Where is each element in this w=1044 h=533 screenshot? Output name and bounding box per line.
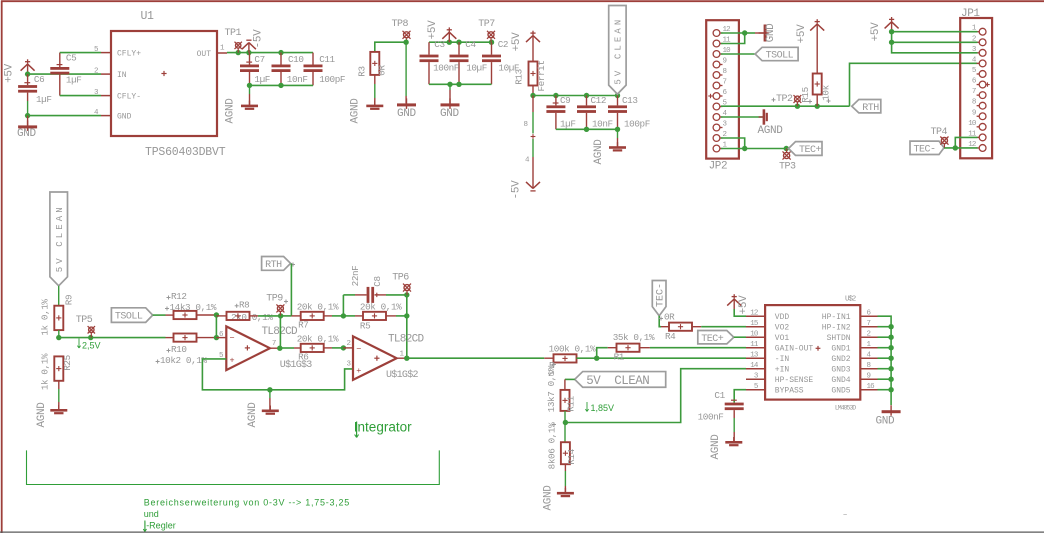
svg-text:CFLY+: CFLY+ — [117, 50, 141, 59]
svg-text:8k06 0,1%: 8k06 0,1% — [546, 422, 557, 469]
svg-text:5V CLEAN: 5V CLEAN — [55, 204, 65, 272]
svg-text:GND: GND — [765, 23, 777, 43]
svg-text:12: 12 — [750, 310, 758, 318]
svg-text:I-Regler: I-Regler — [144, 521, 176, 531]
svg-text:+5V: +5V — [870, 22, 882, 42]
svg-text:GND4: GND4 — [831, 376, 850, 385]
svg-text:R8: R8 — [239, 300, 249, 311]
svg-text:13k7 0,1%: 13k7 0,1% — [546, 365, 557, 412]
svg-text:GND3: GND3 — [831, 366, 850, 375]
svg-text:TP6: TP6 — [392, 273, 409, 284]
svg-text:AGND: AGND — [758, 125, 784, 137]
svg-text:HP-SENSE: HP-SENSE — [775, 376, 814, 385]
svg-text:TP2: TP2 — [776, 94, 793, 105]
svg-text:TP7: TP7 — [478, 19, 495, 30]
svg-text:R1: R1 — [614, 351, 625, 362]
svg-text:C7: C7 — [254, 54, 264, 65]
svg-text:1µF: 1µF — [254, 74, 270, 85]
svg-text:GND2: GND2 — [831, 355, 850, 364]
svg-text:7: 7 — [972, 88, 976, 96]
svg-text:AGND: AGND — [593, 139, 605, 165]
svg-text:HP-IN1: HP-IN1 — [822, 313, 851, 322]
svg-text:BYPASS: BYPASS — [775, 387, 804, 396]
svg-text:1µF: 1µF — [66, 75, 82, 86]
svg-text:TEC+: TEC+ — [799, 145, 822, 156]
svg-text:HP-IN2: HP-IN2 — [822, 324, 851, 333]
svg-text:C5: C5 — [66, 53, 76, 64]
svg-text:7: 7 — [272, 340, 277, 348]
svg-text:1k 0,1%: 1k 0,1% — [40, 353, 51, 390]
svg-text:1µF: 1µF — [36, 94, 52, 105]
svg-text:TSOLL: TSOLL — [766, 51, 794, 62]
svg-text:4: 4 — [525, 157, 530, 165]
svg-text:TP4: TP4 — [931, 127, 948, 138]
svg-text:R3: R3 — [357, 66, 368, 76]
svg-text:−: − — [356, 345, 361, 355]
svg-text:100nF: 100nF — [433, 62, 459, 73]
svg-text:7: 7 — [867, 320, 871, 328]
svg-text:~: ~ — [843, 512, 847, 520]
svg-text:R25: R25 — [62, 355, 73, 371]
svg-text:U$2: U$2 — [845, 296, 856, 304]
svg-text:R9: R9 — [63, 295, 74, 305]
svg-text:14k3 0,1%: 14k3 0,1% — [170, 302, 217, 313]
svg-text:R5: R5 — [360, 321, 370, 332]
svg-text:TP5: TP5 — [76, 315, 93, 326]
svg-text:VDD: VDD — [775, 313, 790, 322]
svg-text:-5V: -5V — [253, 29, 265, 49]
svg-text:GND: GND — [397, 108, 417, 120]
svg-text:100nF: 100nF — [698, 412, 724, 423]
svg-text:+: + — [230, 355, 235, 365]
svg-text:2,5V: 2,5V — [82, 341, 101, 351]
svg-text:100pF: 100pF — [624, 119, 650, 130]
svg-text:RTH: RTH — [265, 260, 282, 271]
svg-text:C3: C3 — [434, 39, 444, 50]
svg-text:10nF: 10nF — [592, 119, 613, 130]
svg-text:VO2: VO2 — [775, 324, 790, 333]
svg-text:R14: R14 — [566, 448, 577, 464]
svg-text:JP1: JP1 — [961, 8, 980, 20]
svg-text:1µF: 1µF — [560, 119, 576, 130]
svg-text:1: 1 — [220, 45, 225, 53]
svg-text:+5V: +5V — [427, 20, 439, 40]
svg-text:20k 0,1%: 20k 0,1% — [360, 301, 402, 312]
svg-text:GND: GND — [876, 416, 896, 428]
svg-text:-5V: -5V — [511, 180, 523, 200]
svg-text:8: 8 — [723, 68, 727, 76]
svg-text:AGND: AGND — [350, 98, 362, 124]
svg-text:C11: C11 — [319, 54, 335, 65]
svg-text:VO1: VO1 — [775, 334, 790, 343]
svg-text:C12: C12 — [591, 95, 607, 106]
svg-text:3: 3 — [347, 361, 352, 369]
svg-text:OUT: OUT — [197, 50, 212, 59]
svg-text:0R: 0R — [664, 312, 675, 323]
svg-text:100pF: 100pF — [319, 74, 345, 85]
svg-text:TEC-: TEC- — [914, 144, 936, 155]
svg-text:+5V: +5V — [511, 32, 523, 52]
svg-text:C8: C8 — [372, 276, 383, 286]
svg-text:TP8: TP8 — [392, 19, 409, 30]
svg-text:U$1G$2: U$1G$2 — [386, 369, 419, 381]
svg-text:10nF: 10nF — [287, 74, 308, 85]
svg-text:7: 7 — [723, 79, 727, 87]
svg-text:1: 1 — [400, 351, 405, 359]
svg-text:−: − — [230, 334, 235, 344]
svg-text:C4: C4 — [465, 39, 476, 50]
svg-text:TP1: TP1 — [225, 28, 242, 39]
svg-text:TP9: TP9 — [266, 294, 283, 305]
svg-text:10k: 10k — [821, 84, 832, 100]
svg-text:TPS60403DBVT: TPS60403DBVT — [145, 146, 226, 159]
svg-text:GND1: GND1 — [831, 345, 850, 354]
svg-text:GND5: GND5 — [831, 387, 850, 396]
svg-text:5V CLEAN: 5V CLEAN — [586, 374, 649, 388]
svg-text:+5V: +5V — [738, 295, 750, 315]
svg-text:RTH: RTH — [862, 103, 879, 114]
svg-text:8: 8 — [972, 99, 976, 107]
svg-text:2k0 0,1%: 2k0 0,1% — [231, 312, 273, 323]
svg-text:AGND: AGND — [247, 402, 259, 428]
svg-text:GND: GND — [440, 108, 460, 120]
svg-text:R10: R10 — [171, 344, 187, 355]
svg-text:R15: R15 — [800, 87, 811, 103]
svg-text:+IN: +IN — [775, 366, 790, 375]
svg-text:9: 9 — [723, 58, 727, 66]
svg-text:GAIN-OUT: GAIN-OUT — [775, 345, 814, 354]
svg-text:8: 8 — [524, 121, 529, 129]
svg-text:R12: R12 — [171, 291, 187, 302]
svg-text:10k2 0,1%: 10k2 0,1% — [160, 355, 207, 366]
svg-text:20k 0,1%: 20k 0,1% — [297, 301, 339, 312]
svg-text:R13: R13 — [514, 69, 525, 85]
svg-text:AGND: AGND — [710, 434, 722, 460]
svg-text:2: 2 — [347, 340, 352, 348]
svg-text:C10: C10 — [288, 54, 304, 65]
svg-text:R11: R11 — [566, 395, 577, 411]
svg-text:R7: R7 — [298, 320, 308, 331]
svg-text:1,85V: 1,85V — [591, 403, 615, 413]
svg-text:-IN: -IN — [775, 355, 790, 364]
svg-text:1k 0,1%: 1k 0,1% — [40, 299, 51, 336]
svg-text:R4: R4 — [665, 331, 676, 342]
svg-text:TEC+: TEC+ — [701, 334, 724, 345]
svg-text:TP3: TP3 — [779, 162, 796, 173]
svg-text:R6: R6 — [298, 352, 308, 363]
svg-text:20k 0,1%: 20k 0,1% — [297, 333, 339, 344]
svg-text:U1: U1 — [141, 10, 155, 23]
svg-text:0R: 0R — [377, 65, 388, 76]
svg-text:5V CLEAN: 5V CLEAN — [614, 17, 624, 85]
svg-text:10µF: 10µF — [466, 62, 487, 73]
svg-text:TEC-: TEC- — [656, 283, 667, 307]
svg-text:und: und — [144, 509, 159, 519]
svg-text:9: 9 — [867, 373, 871, 381]
svg-text:8: 8 — [867, 362, 871, 370]
svg-text:100k 0,1%: 100k 0,1% — [549, 343, 596, 354]
svg-text:IN: IN — [117, 71, 127, 80]
svg-text:22nF: 22nF — [350, 266, 361, 287]
svg-text:C2: C2 — [498, 39, 508, 50]
svg-text:AGND: AGND — [225, 98, 237, 124]
svg-text:SHTDN: SHTDN — [827, 334, 851, 343]
svg-text:C1: C1 — [714, 390, 725, 401]
svg-text:C9: C9 — [560, 95, 570, 106]
svg-text:35k 0,1%: 35k 0,1% — [613, 332, 655, 343]
svg-text:+5V: +5V — [4, 63, 16, 83]
svg-text:TL82CD: TL82CD — [388, 334, 425, 346]
svg-text:C6: C6 — [34, 74, 44, 85]
svg-text:GND: GND — [117, 113, 132, 122]
svg-text:JP2: JP2 — [709, 161, 728, 173]
svg-text:CFLY-: CFLY- — [117, 93, 141, 102]
svg-text:C13: C13 — [622, 95, 638, 106]
svg-text:Integrator: Integrator — [354, 420, 412, 435]
svg-text:Bereichserweiterung von 0-3V -: Bereichserweiterung von 0-3V --> 1,75-3,… — [144, 498, 350, 508]
svg-text:LM4853D: LM4853D — [835, 405, 856, 412]
svg-text:GND: GND — [17, 128, 37, 140]
svg-text:AGND: AGND — [542, 485, 554, 511]
svg-text:+5V: +5V — [796, 24, 808, 44]
svg-text:AGND: AGND — [36, 402, 48, 428]
svg-text:TSOLL: TSOLL — [115, 312, 143, 323]
svg-text:+: + — [356, 366, 361, 376]
svg-text:9: 9 — [972, 109, 976, 117]
svg-text:Ferrit: Ferrit — [536, 60, 547, 91]
svg-text:2: 2 — [867, 331, 871, 339]
